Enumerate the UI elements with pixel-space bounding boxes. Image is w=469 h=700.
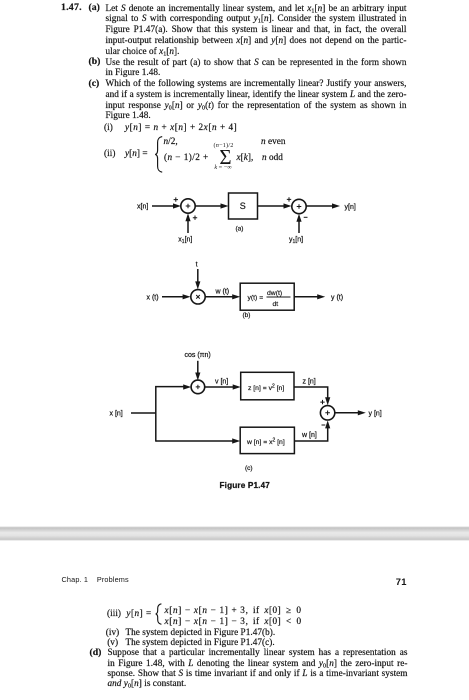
arrowhead into adder A3 top bbox=[195, 373, 200, 381]
wire x(t) to multiplier M1 bbox=[162, 296, 185, 298]
adder A4 bbox=[320, 406, 334, 420]
svg-text:v [n]: v [n] bbox=[215, 379, 228, 386]
equation (i) bbox=[104, 122, 113, 132]
adder A2 bbox=[292, 199, 306, 213]
wire cos(pi n) down into adder A3 bbox=[197, 361, 199, 375]
part (d) marker bbox=[90, 647, 102, 658]
equation (ii) case 2 bbox=[164, 152, 209, 162]
paragraph (b) bbox=[106, 57, 407, 79]
arrowhead at y[n] output of (c) bbox=[358, 410, 366, 415]
arrowhead into adder A2 bottom bbox=[296, 214, 301, 222]
derivative box bbox=[240, 283, 294, 310]
adder A1 bbox=[181, 199, 195, 213]
svg-text:dw(t): dw(t) bbox=[267, 290, 282, 297]
box S bbox=[229, 193, 258, 219]
part (b) marker bbox=[89, 56, 101, 67]
wire A1 to box S bbox=[196, 205, 224, 207]
svg-text:x [n]: x [n] bbox=[110, 411, 123, 418]
svg-text:(b): (b) bbox=[243, 312, 251, 319]
box Z bbox=[241, 372, 294, 400]
svg-text:z [n]: z [n] bbox=[303, 379, 316, 386]
arrowhead at y(t) output bbox=[317, 294, 325, 299]
svg-text:w (t): w (t) bbox=[215, 288, 230, 295]
svg-text:y (t): y (t) bbox=[331, 295, 343, 302]
plus sign at A1 bottom input bbox=[193, 216, 197, 220]
svg-text:cos (πn): cos (πn) bbox=[185, 352, 211, 359]
part (a) marker bbox=[89, 2, 100, 13]
svg-text:(a): (a) bbox=[236, 226, 244, 233]
wire x[n] to branch node bbox=[131, 412, 156, 414]
svg-text:y1[n]: y1[n] bbox=[289, 236, 303, 245]
box W bbox=[240, 427, 294, 453]
arrowhead into derivative box bbox=[232, 294, 240, 299]
wire A3 to box Z bbox=[205, 386, 235, 388]
diagram (b) bbox=[162, 269, 319, 297]
svg-text:y[n]: y[n] bbox=[345, 204, 356, 211]
wire x[n] to adder A1 bbox=[152, 205, 175, 207]
problem number 1.47 bbox=[61, 2, 82, 13]
item (v) bbox=[107, 637, 118, 647]
wire box W right then up into A4 bbox=[294, 426, 327, 441]
wire A4 to y[n] output bbox=[335, 412, 360, 414]
part (c) marker bbox=[89, 78, 100, 89]
branch riser bbox=[156, 387, 186, 442]
arrowhead at y[n] output bbox=[332, 203, 340, 208]
svg-text:S: S bbox=[240, 201, 246, 211]
plus sign at A1 left input bbox=[174, 197, 178, 201]
equation (ii) brace bbox=[155, 137, 162, 173]
svg-text:w [n] = x2 [n]: w [n] = x2 [n] bbox=[246, 437, 285, 446]
svg-text:x1[n]: x1[n] bbox=[178, 236, 192, 245]
svg-text:z [n] = v2 [n]: z [n] = v2 [n] bbox=[248, 383, 284, 392]
arrowhead into box S bbox=[221, 203, 229, 208]
svg-text:t: t bbox=[196, 262, 198, 269]
item (iv) bbox=[106, 627, 119, 637]
plus sign at A4 top input bbox=[320, 400, 324, 404]
multiplier M1 bbox=[191, 290, 205, 304]
arrowhead into box W bbox=[232, 438, 240, 443]
svg-text:w [n]: w [n] bbox=[301, 432, 317, 439]
equation (iii) bbox=[107, 608, 121, 618]
minus sign at A2 bottom input bbox=[304, 216, 308, 218]
adder A3 bbox=[191, 380, 205, 394]
wire derivative box to y(t) bbox=[294, 296, 319, 298]
arrowhead into adder A4 bottom bbox=[325, 420, 330, 428]
diagram (c) bbox=[131, 361, 360, 442]
svg-text:dt: dt bbox=[273, 301, 279, 308]
page separator band bbox=[0, 526, 469, 541]
summation lower limit bbox=[209, 165, 237, 171]
wire x1[n] up into A1 bbox=[187, 219, 189, 233]
wire M1 to derivative box bbox=[205, 296, 235, 298]
paragraph (c) bbox=[106, 78, 407, 121]
wire branch bottom to box W bbox=[156, 440, 235, 442]
equation (ii) case 1 bbox=[164, 136, 178, 146]
plus sign at A2 left input bbox=[287, 197, 291, 201]
wire A2 to y[n] output bbox=[307, 205, 335, 207]
summation upper limit bbox=[211, 143, 237, 149]
page number 71 bbox=[396, 576, 407, 587]
labels diagram (a) bbox=[137, 197, 356, 245]
wire S to adder A2 bbox=[258, 205, 287, 207]
equation (ii) bbox=[104, 148, 115, 158]
arrowhead into adder A2 left bbox=[284, 203, 292, 208]
running head bbox=[62, 575, 129, 584]
wire y1[n] up into A2 bbox=[298, 220, 300, 234]
wire box Z right then down into A4 bbox=[294, 387, 328, 400]
paragraph (a) bbox=[106, 3, 407, 57]
svg-text:(c): (c) bbox=[245, 465, 253, 472]
svg-text:y [n]: y [n] bbox=[369, 411, 382, 418]
arrowhead into multiplier M1 left bbox=[183, 294, 191, 299]
arrowhead into adder A1 bottom bbox=[185, 213, 190, 221]
summation sigma bbox=[214, 147, 238, 168]
arrowhead into adder A4 top bbox=[325, 397, 330, 405]
svg-text:x[n]: x[n] bbox=[137, 204, 148, 211]
svg-text:y(t) =: y(t) = bbox=[248, 294, 264, 301]
equation (iii) brace bbox=[156, 604, 162, 625]
fraction bar in derivative box bbox=[267, 296, 291, 298]
arrowhead into adder A1 left bbox=[173, 203, 181, 208]
wire t down into multiplier M1 bbox=[197, 269, 199, 284]
paragraph (d) bbox=[108, 647, 408, 688]
minus sign at A4 bottom input bbox=[322, 424, 326, 426]
arrowhead into box Z bbox=[233, 384, 241, 389]
arrowhead into adder A3 left bbox=[183, 384, 191, 389]
svg-text:Figure P1.47: Figure P1.47 bbox=[220, 481, 271, 490]
svg-text:x (t): x (t) bbox=[147, 294, 159, 301]
arrowhead into multiplier M1 top bbox=[195, 281, 200, 289]
